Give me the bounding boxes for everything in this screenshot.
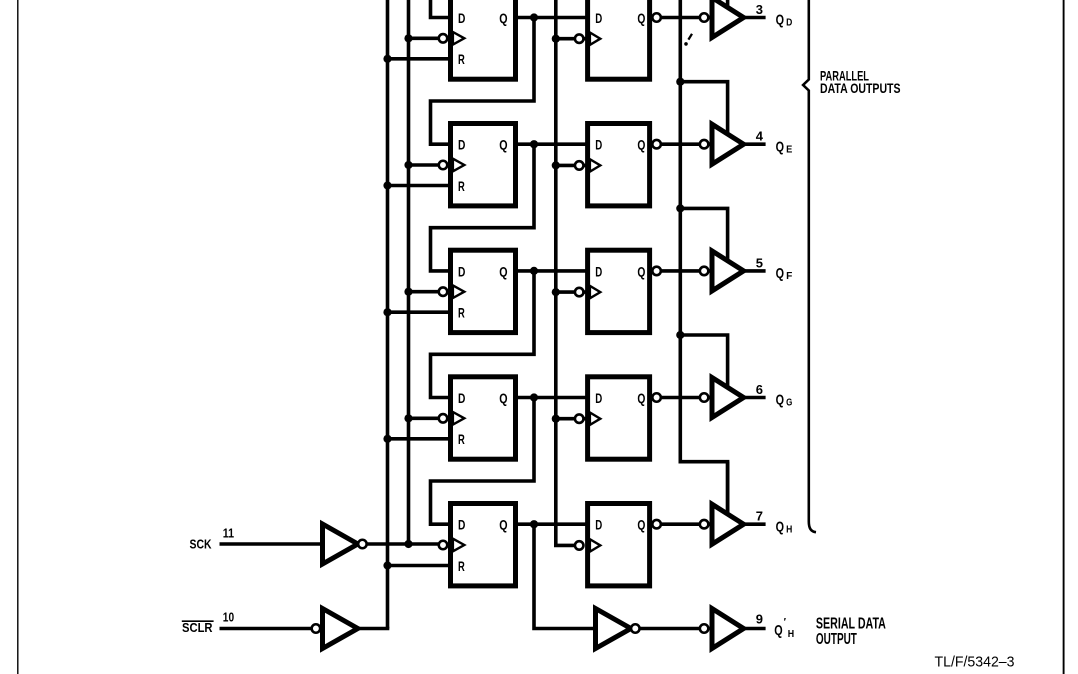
wire CK1 to master stage E (407, 163, 449, 167)
output buffer stage QE (712, 124, 744, 164)
svg-text:Q: Q (499, 263, 507, 279)
label QH (776, 518, 793, 535)
wire R net stage H (386, 564, 452, 568)
svg-text:9: 9 (756, 611, 763, 626)
svg-text:R: R (458, 431, 465, 447)
wire output pin 7 (744, 522, 766, 526)
output bubble slave stage H (652, 520, 661, 529)
label QE (776, 138, 793, 155)
wire CK2 to slave stage E (554, 164, 586, 168)
svg-text:D: D (458, 10, 465, 26)
input bubble buffer stage D (700, 13, 709, 22)
wire feed to buffer stage H (726, 462, 730, 517)
wire clock rail CK1 (407, 0, 411, 544)
clock bubble master stage D (439, 34, 448, 43)
input bubble SCLR buffer (312, 624, 321, 633)
output bubble SCK buffer (358, 540, 367, 549)
output bubble serial buffer U8 (631, 624, 640, 633)
wire serial D feed stage 2 (431, 18, 535, 145)
wire stage H Q to serial buffers (534, 524, 596, 628)
buffer SCK U6 (323, 524, 358, 564)
wire slave Q to buffer stage G (650, 396, 710, 400)
junction master Q stage D (530, 13, 538, 21)
pin number 7 (756, 509, 763, 524)
svg-text:D: D (595, 137, 602, 153)
pin number 3 (756, 2, 763, 17)
svg-text:D: D (458, 390, 465, 406)
wire R net stage G (386, 437, 452, 441)
wire master Q to slave D stage F (513, 269, 589, 273)
junction and feed to buffer stage E (676, 78, 727, 137)
svg-text:Q: Q (637, 517, 645, 533)
clock bubble master stage F (439, 287, 448, 296)
output bubble slave stage D (652, 13, 661, 22)
output buffer stage QH (712, 504, 744, 544)
junction master Q stage E (530, 140, 538, 148)
output buffer stage QD (712, 0, 744, 38)
svg-text:R: R (458, 305, 465, 321)
input bubble buffer stage E (700, 140, 709, 149)
wire serial D feed stage 5 (431, 398, 535, 525)
clock bubble slave stage D (575, 34, 584, 43)
flip-flop master stage QH (451, 504, 516, 586)
wire master Q to slave D stage H (513, 522, 589, 526)
svg-text:R: R (458, 51, 465, 67)
svg-text:SCLR: SCLR (182, 620, 213, 635)
pin number 6 (756, 382, 763, 397)
clock bubble master stage G (439, 414, 448, 423)
svg-text:Q: Q (637, 10, 645, 26)
junction and feed to buffer stage G (676, 331, 727, 390)
wire master Q to slave D stage E (513, 142, 589, 146)
junction master Q stage G (530, 393, 538, 401)
junction CK1 stage E (404, 161, 412, 169)
buffer serial U9 (712, 609, 744, 649)
junction R rail stage H (383, 561, 391, 569)
wire master Q to slave D stage G (513, 396, 589, 400)
svg-text:D: D (786, 17, 793, 29)
input bubble buffer stage H (700, 520, 709, 529)
pin number 11 (223, 526, 234, 541)
junction R rail stage D (383, 55, 391, 63)
label SCK (190, 536, 212, 551)
junction and feed to buffer stage F (676, 204, 727, 263)
output bubble slave stage E (652, 140, 661, 149)
svg-text:Q: Q (774, 622, 783, 639)
svg-text:Q: Q (499, 10, 507, 26)
svg-text:D: D (458, 517, 465, 533)
svg-text:D: D (458, 263, 465, 279)
clock bubble slave stage G (575, 414, 584, 423)
wire CK1 to master stage G (407, 416, 449, 420)
pin number 9 (756, 611, 763, 626)
buffer SCLR U7 (323, 609, 358, 649)
wire CK1 to master stage D (407, 36, 449, 40)
junction CK2 stage G (552, 415, 560, 423)
wire CK2 to slave stage D (554, 37, 586, 41)
wire R net stage F (386, 310, 452, 314)
svg-text:D: D (595, 517, 602, 533)
svg-text:11: 11 (223, 526, 234, 541)
output buffer stage QG (712, 378, 744, 418)
wire SCLR buffer to reset rail (358, 627, 390, 631)
junction SCK CK1 (404, 540, 412, 548)
wire R net stage D (386, 57, 452, 61)
wire master Q to slave D stage D (513, 16, 589, 20)
svg-text:Q: Q (499, 517, 507, 533)
label TL/F/5342-3 (935, 654, 1015, 671)
svg-text:Q: Q (776, 392, 785, 409)
svg-text:R: R (458, 558, 465, 574)
svg-text:DATA OUTPUTS: DATA OUTPUTS (820, 80, 901, 96)
pin number 5 (756, 255, 763, 270)
svg-text:5: 5 (756, 255, 763, 270)
flip-flop slave stage QD (588, 0, 650, 79)
junction master Q stage H (530, 520, 538, 528)
junction R rail stage F (383, 308, 391, 316)
svg-text:4: 4 (756, 129, 764, 144)
wire SCK input (220, 542, 322, 546)
label SCLR (182, 620, 214, 635)
junction CK2 stage D (552, 35, 560, 43)
wire output pin 3 (744, 16, 766, 20)
svg-text:G: G (786, 397, 792, 409)
junction CK2 stage E (552, 161, 560, 169)
svg-text:Q: Q (776, 265, 785, 282)
wire slave Q to buffer stage E (650, 142, 710, 146)
flip-flop master stage QE (451, 124, 516, 206)
wire clock rail CK2 (556, 0, 575, 545)
wire serial D feed stage 1 (431, 0, 452, 18)
wire serial buffer link (640, 627, 702, 631)
svg-text:Q: Q (776, 518, 785, 535)
svg-text:Q: Q (499, 137, 507, 153)
buffer serial U8 (596, 609, 631, 649)
label QD (776, 12, 793, 29)
brace parallel data outputs (803, 0, 816, 532)
wire serial D feed stage 3 (431, 144, 535, 271)
clock bubble slave stage E (575, 161, 584, 170)
label PARALLEL DATA OUTPUTS (820, 68, 901, 96)
flip-flop slave stage QH (588, 504, 650, 586)
output bubble slave stage F (652, 267, 661, 276)
wire output feed rail (680, 0, 727, 516)
label Q'H (774, 617, 794, 640)
label QF (776, 265, 793, 282)
wire output pin 6 (744, 396, 766, 400)
wire output pin 5 (744, 269, 766, 273)
output buffer stage QF (712, 251, 744, 291)
svg-text:Q: Q (637, 137, 645, 153)
svg-text:R: R (458, 178, 465, 194)
wire slave Q to buffer stage F (650, 269, 710, 273)
wire CK2 to slave stage G (554, 417, 586, 421)
wire CK1 to master stage F (407, 290, 449, 294)
wire CK2 to slave stage F (554, 290, 586, 294)
wire serial D feed stage 4 (431, 271, 535, 398)
junction master Q stage F (530, 267, 538, 275)
svg-text:Q: Q (776, 138, 785, 155)
svg-text:Q: Q (637, 390, 645, 406)
wire slave Q to buffer stage D (650, 16, 710, 20)
flip-flop slave stage QE (588, 124, 650, 206)
svg-text:H: H (786, 523, 792, 535)
clock bubble master stage E (439, 161, 448, 170)
junction R rail stage G (383, 435, 391, 443)
svg-text:D: D (595, 10, 602, 26)
wire SCK buffer to CK1 (367, 542, 440, 546)
wire SCLR input (220, 627, 314, 631)
svg-text:6: 6 (756, 382, 763, 397)
svg-text:7: 7 (756, 509, 763, 524)
svg-text:E: E (786, 143, 792, 155)
junction CK2 stage F (552, 288, 560, 296)
svg-text:10: 10 (223, 609, 234, 624)
label QG (776, 392, 793, 409)
svg-text:SCK: SCK (190, 536, 212, 551)
svg-text:Q: Q (637, 263, 645, 279)
clock bubble master stage H (439, 541, 448, 550)
wire output pin 9 (744, 627, 766, 631)
print artifact mark (684, 34, 692, 46)
svg-text:Q: Q (499, 390, 507, 406)
input bubble buffer stage F (700, 267, 709, 276)
svg-text:F: F (786, 270, 793, 282)
pin number 4 (756, 129, 764, 144)
wire feed to output buffer 1 (726, 0, 730, 10)
wire slave Q to buffer stage H (650, 522, 710, 526)
flip-flop master stage QG (451, 377, 516, 459)
svg-text:Q: Q (776, 12, 785, 29)
flip-flop master stage QF (451, 250, 516, 332)
label SERIAL DATA OUTPUT (816, 615, 886, 648)
flip-flop slave stage QF (588, 250, 650, 332)
wire output pin 4 (744, 142, 766, 146)
wire R net stage E (386, 184, 452, 188)
svg-text:3: 3 (756, 2, 763, 17)
junction R rail stage E (383, 181, 391, 189)
wire SCLR reset rail (386, 0, 390, 629)
clock bubble slave stage F (575, 288, 584, 297)
svg-text:TL/F/5342–3: TL/F/5342–3 (935, 654, 1015, 671)
svg-text:D: D (595, 263, 602, 279)
svg-text:D: D (595, 390, 602, 406)
junction CK1 stage D (404, 34, 412, 42)
clock bubble slave stage H (575, 541, 584, 550)
svg-text:OUTPUT: OUTPUT (816, 631, 857, 648)
junction CK1 stage F (404, 288, 412, 296)
svg-text:SERIAL DATA: SERIAL DATA (816, 615, 886, 632)
flip-flop slave stage QG (588, 377, 650, 459)
pin number 10 (223, 609, 234, 624)
input bubble buffer stage G (700, 393, 709, 402)
svg-text:H: H (788, 628, 794, 640)
junction CK1 stage G (404, 414, 412, 422)
input bubble serial buffer U9 (700, 624, 709, 633)
output bubble slave stage G (652, 393, 661, 402)
svg-text:D: D (458, 137, 465, 153)
flip-flop master stage QD (451, 0, 516, 79)
